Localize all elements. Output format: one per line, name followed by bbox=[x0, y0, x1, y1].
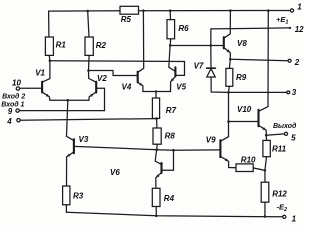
terminal pin 4 bbox=[17, 119, 20, 122]
wire common emitter to R7 bbox=[155, 92, 157, 99]
label pin 9 bbox=[8, 107, 13, 116]
wire V4 collector to rail bbox=[138, 11, 144, 73]
wire R2 top stub bbox=[88, 11, 89, 37]
svg-text:V6: V6 bbox=[110, 168, 120, 177]
resistor R8 bbox=[153, 128, 161, 144]
svg-text:V9: V9 bbox=[206, 136, 216, 145]
wire pin 2 bbox=[230, 59, 288, 60]
wire +E1 top rail left segment with R1 riser bbox=[49, 11, 120, 37]
wire R6 top stub bbox=[169, 11, 171, 20]
svg-text:Вход 2: Вход 2 bbox=[2, 93, 25, 101]
resistor R3 bbox=[63, 186, 70, 205]
resistor R4 bbox=[152, 188, 160, 206]
svg-text:R7: R7 bbox=[166, 106, 177, 115]
wire V2 collector to V4 base bbox=[89, 71, 138, 76]
transistor V4 bbox=[138, 72, 143, 92]
svg-text:R12: R12 bbox=[272, 190, 287, 199]
svg-text:5: 5 bbox=[291, 133, 296, 142]
svg-text:V1: V1 bbox=[35, 68, 45, 77]
resistor R12 bbox=[261, 170, 269, 216]
terminal pin 12 bbox=[289, 27, 291, 29]
transistor V8 bbox=[224, 11, 231, 60]
wire V8 base node bbox=[170, 45, 224, 47]
terminal pin 9 bbox=[16, 109, 19, 112]
label R11 bbox=[272, 145, 287, 154]
svg-text:R8: R8 bbox=[165, 131, 176, 140]
wire diode branch bbox=[211, 46, 229, 93]
label V3 bbox=[79, 135, 89, 144]
label Vhod 2 bbox=[2, 93, 25, 101]
wire pin 12 bbox=[211, 28, 289, 46]
wire +E1 top rail right segment bbox=[139, 10, 291, 12]
svg-text:R6: R6 bbox=[178, 24, 189, 33]
resistor R1 bbox=[45, 37, 53, 55]
label R4 bbox=[164, 194, 175, 203]
svg-text:R2: R2 bbox=[96, 41, 107, 50]
label -E2 bbox=[277, 203, 288, 214]
terminal pin 5 output bbox=[284, 132, 287, 135]
label V8 bbox=[237, 39, 247, 48]
transistor V1 bbox=[42, 61, 50, 101]
label pin 5 bbox=[291, 133, 296, 142]
svg-text:10: 10 bbox=[12, 79, 21, 88]
svg-text:R10: R10 bbox=[241, 155, 256, 164]
label pin 3 bbox=[292, 88, 297, 97]
label Vhod 1 bbox=[1, 101, 24, 109]
svg-text:12: 12 bbox=[295, 25, 304, 34]
terminal pin 3 bbox=[287, 91, 290, 94]
label R2 bbox=[96, 41, 107, 50]
svg-text:V3: V3 bbox=[79, 135, 89, 144]
label pin 1 top bbox=[297, 2, 302, 11]
svg-text:3: 3 bbox=[292, 88, 297, 97]
transistor V2 bbox=[89, 55, 97, 100]
label pin 1 bottom bbox=[292, 214, 297, 223]
wire R10 to R11 R12 node bbox=[253, 168, 265, 171]
wire V6 base loop bbox=[162, 150, 174, 170]
transistor V5 bbox=[171, 67, 176, 91]
label R6 bbox=[178, 24, 189, 33]
terminal pin 1 bottom bbox=[283, 215, 286, 218]
resistor R9 bbox=[226, 59, 233, 92]
wire pin 10 to V1 base bbox=[20, 87, 42, 89]
wire R1 to V5 base bbox=[50, 61, 185, 76]
label V2 bbox=[97, 74, 107, 83]
label V1 bbox=[35, 68, 45, 77]
svg-text:V7: V7 bbox=[194, 62, 204, 71]
label pin 10 bbox=[12, 79, 21, 88]
label pin 4 bbox=[6, 117, 12, 126]
wire R7 to R8 bbox=[156, 119, 158, 128]
label V4 bbox=[122, 82, 132, 91]
wire R4 to bottom rail bbox=[155, 207, 157, 216]
wire R3 to bottom rail corner bbox=[65, 205, 67, 212]
svg-text:R11: R11 bbox=[272, 145, 287, 154]
svg-text:Вход 1: Вход 1 bbox=[1, 101, 24, 109]
label +E1 bbox=[276, 15, 288, 26]
transistor V6 bbox=[155, 150, 161, 189]
svg-text:4: 4 bbox=[6, 117, 12, 126]
svg-text:V4: V4 bbox=[122, 82, 132, 91]
wire V5 collector riser bbox=[169, 45, 175, 71]
wire -E2 bottom rail bbox=[66, 212, 282, 217]
label R1 bbox=[56, 40, 67, 49]
svg-text:V10: V10 bbox=[237, 105, 252, 114]
wire R6 bottom stub bbox=[169, 39, 172, 46]
svg-text:V5: V5 bbox=[176, 83, 186, 92]
resistor R10 bbox=[236, 164, 253, 172]
transistor V3 bbox=[67, 100, 74, 186]
svg-text:2: 2 bbox=[294, 58, 300, 67]
label R9 bbox=[236, 73, 247, 82]
wire bias node to V9 base bbox=[157, 149, 221, 152]
label V10 bbox=[237, 105, 252, 114]
label V7 bbox=[194, 62, 204, 71]
label R8 bbox=[165, 131, 176, 140]
label pin 2 bbox=[294, 58, 300, 67]
terminal pin 2 bbox=[288, 59, 291, 62]
wire output bbox=[266, 134, 284, 135]
svg-text:R3: R3 bbox=[73, 192, 84, 201]
terminal pin 1 top bbox=[290, 9, 293, 12]
svg-text:1: 1 bbox=[292, 214, 297, 223]
wire pin 3 bbox=[228, 91, 286, 93]
label R3 bbox=[73, 192, 84, 201]
wire V9 collector to V10 base bbox=[228, 121, 258, 123]
label V9 bbox=[206, 136, 216, 145]
terminal pin 10 bbox=[16, 87, 19, 90]
label Vyhod bbox=[273, 122, 297, 130]
svg-text:V8: V8 bbox=[237, 39, 247, 48]
resistor R6 bbox=[167, 20, 175, 39]
label R12 bbox=[272, 190, 287, 199]
svg-text:1: 1 bbox=[297, 2, 302, 11]
transistor V10 bbox=[259, 11, 269, 136]
svg-text:V2: V2 bbox=[97, 74, 107, 83]
wire V2 base to pin 9 bbox=[20, 88, 105, 110]
wire V3 base to bias node bbox=[74, 146, 157, 149]
resistor R2 bbox=[85, 37, 93, 55]
label V5 bbox=[176, 83, 186, 92]
label pin 12 bbox=[295, 25, 304, 34]
resistor R7 bbox=[152, 98, 159, 118]
label R10 bbox=[241, 155, 256, 164]
diode V7 bbox=[207, 68, 216, 77]
svg-text:R5: R5 bbox=[121, 15, 132, 24]
wire V4 V5 common emitter bbox=[143, 91, 171, 93]
label V6 bbox=[110, 168, 120, 177]
label R7 bbox=[166, 106, 177, 115]
wire R8 bottom stub bbox=[156, 144, 158, 150]
svg-text:9: 9 bbox=[8, 107, 13, 116]
wire V1 V2 common emitter bbox=[50, 99, 89, 101]
resistor R5 bbox=[120, 6, 139, 14]
svg-text:R4: R4 bbox=[164, 194, 175, 203]
transistor V9 bbox=[220, 92, 236, 167]
resistor R11 bbox=[263, 135, 270, 170]
svg-text:R9: R9 bbox=[236, 73, 247, 82]
wire pin 4 to R7 R8 node bbox=[20, 119, 156, 121]
svg-text:Выход: Выход bbox=[273, 122, 297, 130]
label R5 bbox=[121, 15, 132, 24]
wire R1 bottom stub bbox=[48, 55, 51, 60]
svg-text:R1: R1 bbox=[56, 40, 67, 49]
